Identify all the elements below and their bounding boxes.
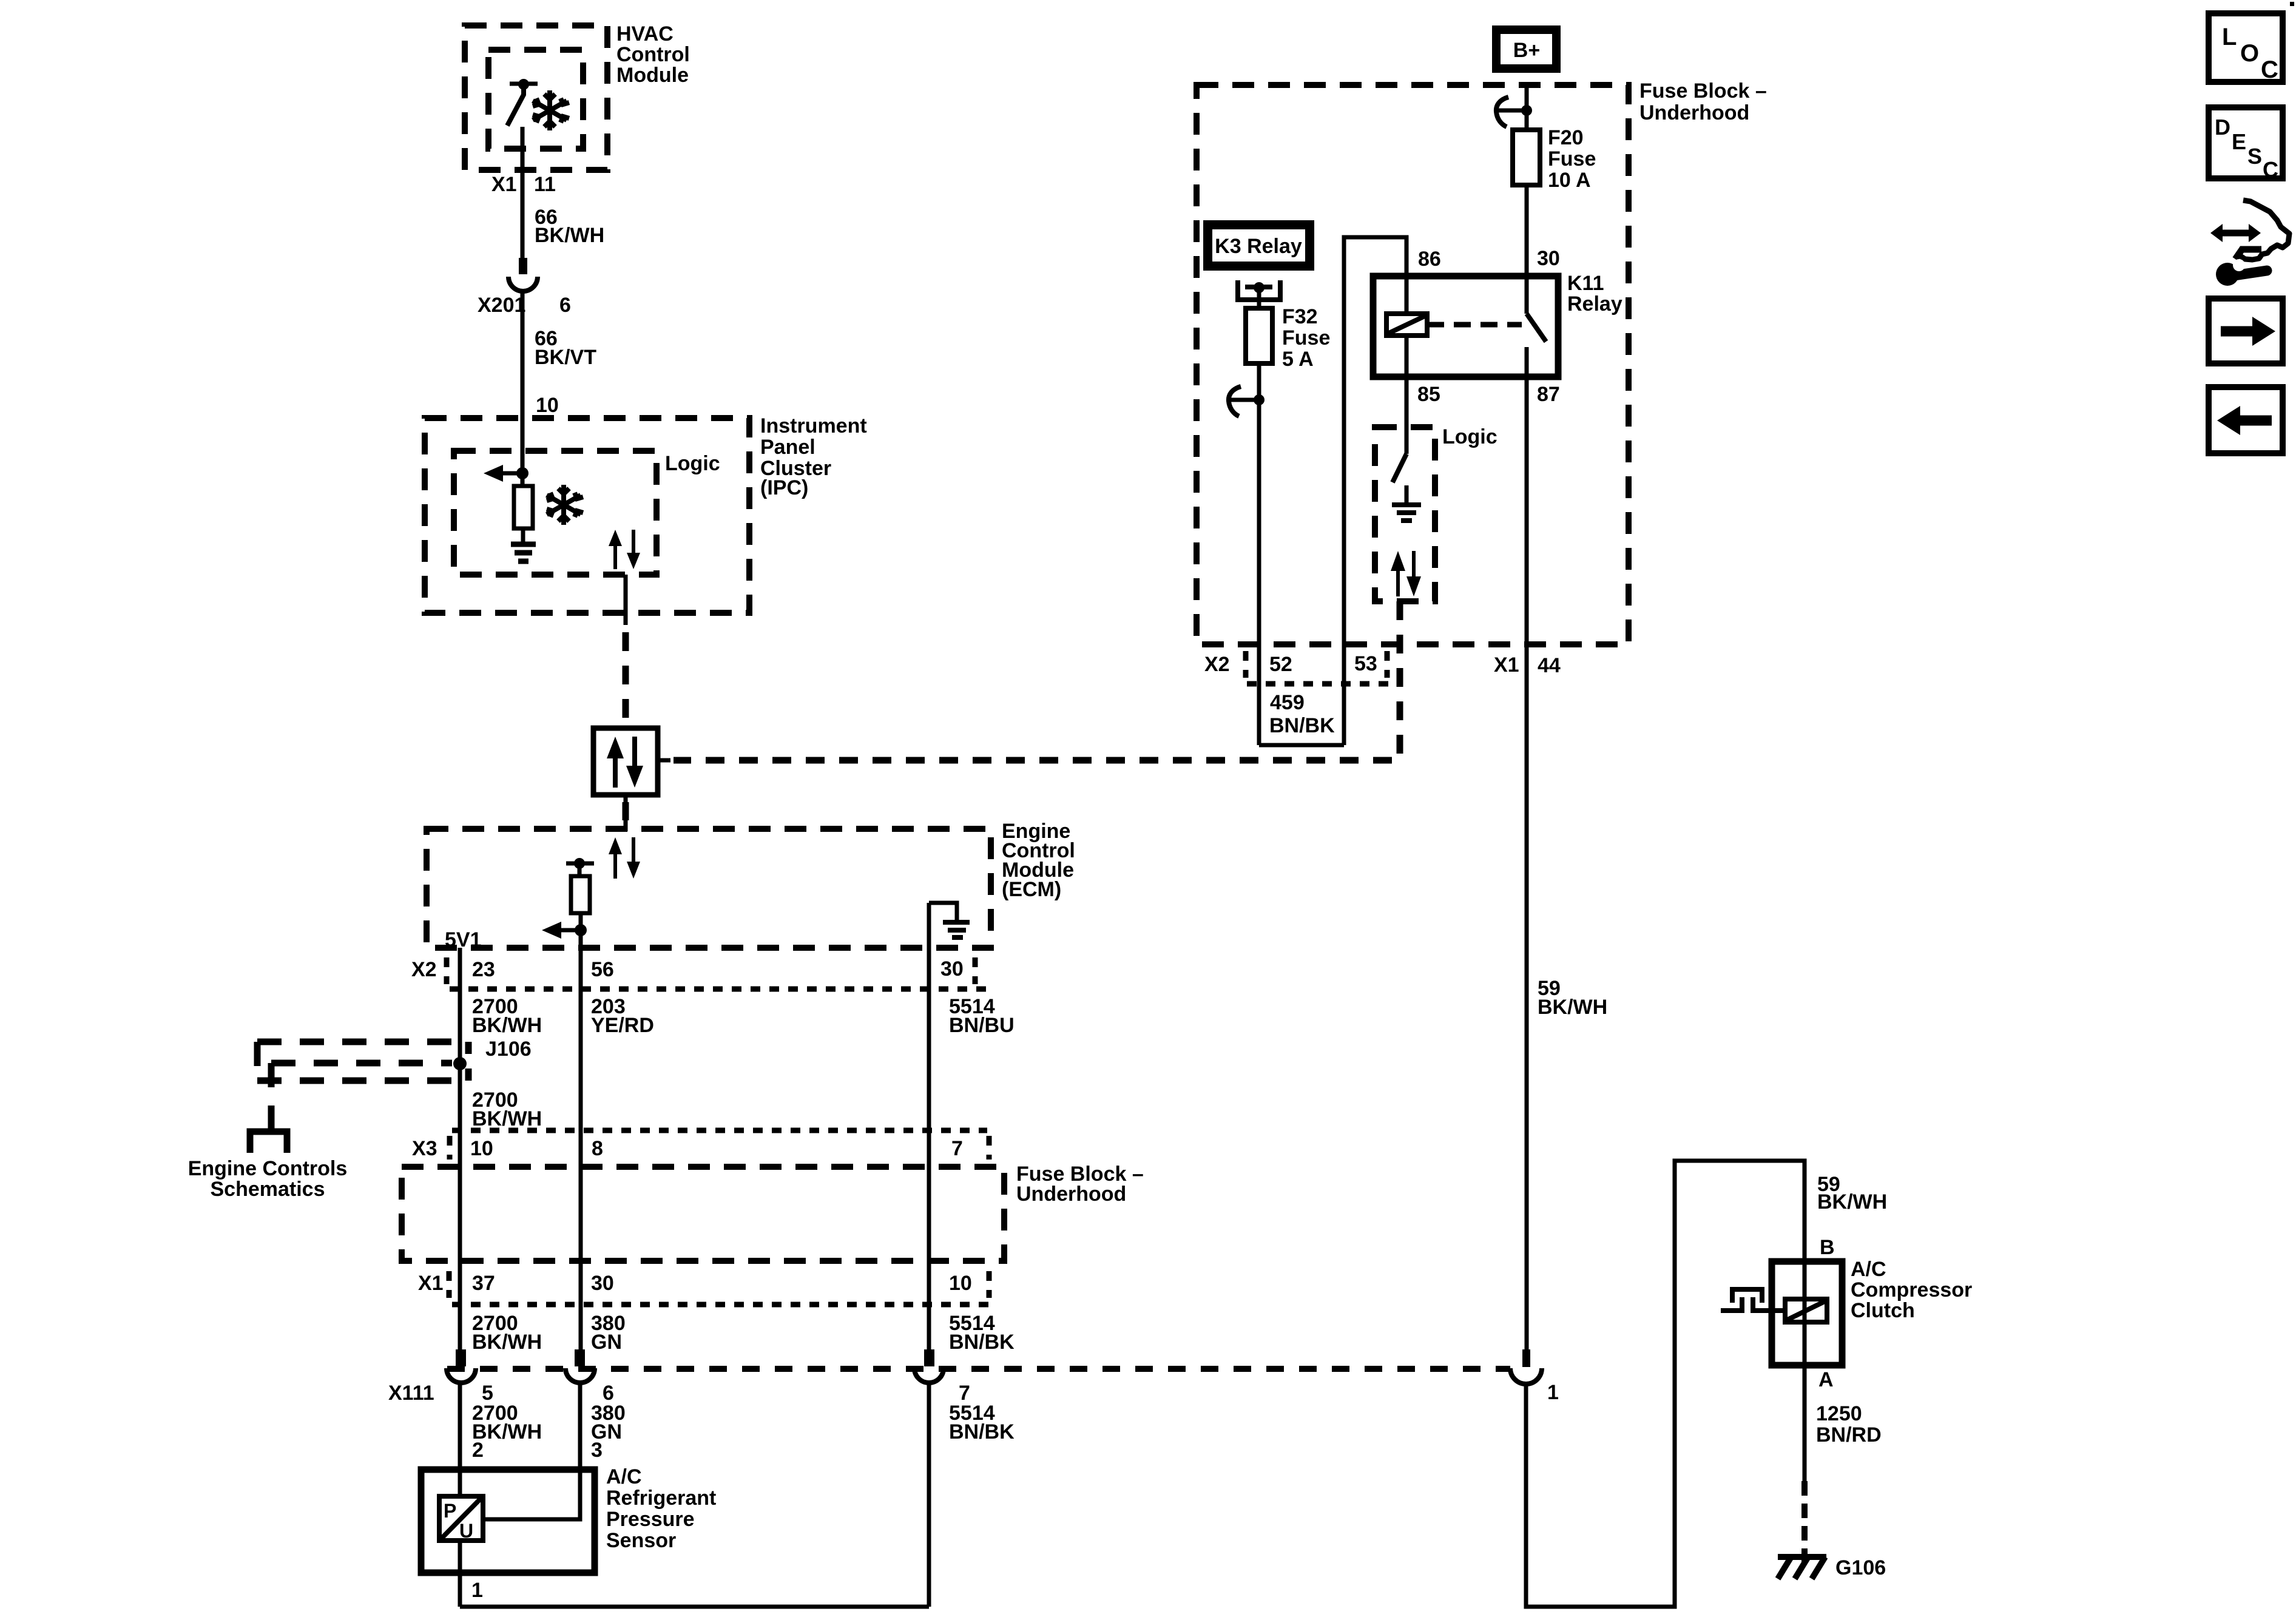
svg-text:(IPC): (IPC): [760, 476, 808, 499]
connector X111 pin (BN/BK): [914, 1349, 944, 1383]
svg-text:Refrigerant: Refrigerant: [606, 1487, 716, 1510]
svg-text:Relay: Relay: [1567, 292, 1622, 316]
svg-text:A: A: [1818, 1368, 1834, 1391]
svg-text:85: 85: [1417, 383, 1440, 406]
snowflake icon (IPC): [547, 485, 583, 525]
svg-text:Underhood: Underhood: [1639, 101, 1749, 124]
A/C Compressor Clutch box: [1772, 1261, 1842, 1365]
svg-text:459: 459: [1270, 691, 1305, 714]
fuse F32 5A: [1246, 308, 1272, 363]
wire relay 85 to logic box: [1405, 336, 1409, 454]
svg-text:Compressor: Compressor: [1851, 1278, 1972, 1301]
svg-text:BN/BK: BN/BK: [1269, 714, 1335, 737]
svg-text:X2: X2: [411, 958, 437, 981]
svg-text:10: 10: [536, 394, 559, 417]
svg-text:E: E: [2232, 129, 2246, 154]
HVAC Control Module inner dashed box: [488, 50, 583, 149]
left arrow (signal out) in IPC: [484, 465, 528, 482]
svg-text:L: L: [2222, 24, 2237, 50]
svg-text:56: 56: [591, 958, 614, 981]
clutch mechanical symbol: [1721, 1289, 1785, 1311]
connector X111 face line: [447, 1366, 1510, 1372]
svg-text:86: 86: [1418, 248, 1441, 271]
chassis ground G106: [1778, 1557, 1826, 1579]
wire sensor pin 1: [458, 1541, 462, 1607]
wire HVAC pin 11 to X201: [521, 127, 525, 258]
fuse holder bracket above F32: [1235, 280, 1283, 300]
svg-text:Schematics: Schematics: [211, 1178, 325, 1201]
switch in logic box: [1393, 454, 1406, 482]
svg-text:52: 52: [1269, 653, 1292, 676]
connector X111 pin (BK/WH): [447, 1349, 476, 1383]
splice J106 dot: [453, 1057, 467, 1070]
wire F32 clip to X2 pin 52: [1257, 400, 1261, 745]
Engine Control Module dashed box: [427, 829, 991, 948]
wire X201 to IPC pin 10: [521, 290, 525, 473]
svg-text:5 A: 5 A: [1282, 348, 1314, 371]
svg-text:Logic: Logic: [665, 452, 720, 475]
connector X111 pin 1: [1510, 1349, 1542, 1384]
U-wire 459 BN/BK: [1259, 743, 1344, 748]
splice J106 dashed frame: [257, 1042, 468, 1081]
A/C Refrigerant Pressure Sensor box: [421, 1470, 595, 1573]
svg-text:S: S: [2247, 144, 2262, 169]
repair info icon (arrow, panel, wrench): [2210, 200, 2289, 286]
relay coil K11: [1386, 314, 1427, 336]
connector X1 dashed ticks: [447, 1271, 452, 1298]
svg-text:10 A: 10 A: [1548, 169, 1591, 192]
svg-text:Fuse Block –: Fuse Block –: [1639, 79, 1767, 103]
fuse F20 10A: [1513, 130, 1540, 185]
svg-text:Underhood: Underhood: [1016, 1183, 1126, 1206]
forward arrow box: [2209, 299, 2283, 363]
svg-text:Panel: Panel: [760, 436, 815, 459]
svg-text:D: D: [2215, 115, 2230, 140]
connector X2 dashed ticks: [444, 957, 450, 984]
relay coil to switch dashed link: [1427, 322, 1522, 328]
svg-text:HVAC: HVAC: [616, 22, 674, 46]
wire B+ to F20: [1525, 84, 1529, 130]
HVAC Control Module outer dashed box: [465, 25, 607, 170]
fuse clip below F32: [1229, 387, 1264, 416]
serial data arrows in ECM: [609, 837, 640, 879]
svg-text:11: 11: [534, 173, 556, 196]
n-wire pin 53 to relay 86: [1344, 237, 1406, 745]
dashed wire to G106: [1801, 1481, 1808, 1565]
K3 Relay reference box: [1203, 220, 1314, 271]
svg-text:BK/WH: BK/WH: [535, 224, 604, 247]
svg-text:BK/VT: BK/VT: [535, 346, 596, 369]
LOC navigation box: [2209, 13, 2283, 83]
ground symbol in ECM: [929, 903, 970, 937]
serial data wire below IPC: [624, 575, 628, 625]
svg-text:44: 44: [1538, 654, 1561, 677]
svg-text:10: 10: [949, 1272, 972, 1295]
dashed stub to engine controls schematics: [268, 1063, 275, 1129]
serial data arrows in logic box: [1391, 551, 1421, 596]
snowflake icon (HVAC): [533, 90, 569, 130]
wire X111-6 to sensor pin 3: [483, 1382, 580, 1519]
svg-text:X111: X111: [388, 1382, 434, 1405]
svg-text:37: 37: [472, 1272, 495, 1295]
signal ground in IPC: [511, 544, 536, 561]
svg-text:30: 30: [591, 1272, 614, 1295]
svg-text:B: B: [1820, 1236, 1835, 1259]
Instrument Panel Cluster dashed box: [425, 418, 749, 613]
svg-text:30: 30: [940, 957, 964, 981]
connector X1 face line: [452, 1302, 989, 1308]
clutch coil: [1785, 1261, 1827, 1365]
svg-text:1250: 1250: [1816, 1402, 1862, 1425]
svg-text:Pressure: Pressure: [606, 1508, 695, 1531]
wire X111-5 to sensor pin 2: [458, 1382, 462, 1496]
svg-text:YE/RD: YE/RD: [591, 1014, 654, 1037]
wire ECM ground to X2 pin 30: [927, 903, 931, 1349]
relay switch blade: [1527, 314, 1546, 377]
svg-text:BK/WH: BK/WH: [472, 1331, 542, 1354]
wire F20 to relay 30: [1525, 185, 1529, 314]
left arrow (signal) in ECM: [542, 922, 587, 939]
svg-text:BN/BK: BN/BK: [949, 1420, 1015, 1443]
svg-text:J106: J106: [485, 1038, 532, 1061]
IPC Logic inner dashed box: [454, 451, 657, 575]
corner mark: [2290, 2, 2294, 6]
svg-text:Logic: Logic: [1442, 425, 1497, 448]
svg-text:K3 Relay: K3 Relay: [1215, 235, 1302, 258]
svg-text:1: 1: [471, 1579, 483, 1602]
serial data wire to ECM: [624, 795, 628, 802]
svg-text:Engine Controls: Engine Controls: [188, 1157, 348, 1180]
serial data dashed wire to fuse block logic: [658, 758, 670, 763]
svg-text:BN/BK: BN/BK: [949, 1331, 1015, 1354]
svg-text:2: 2: [472, 1439, 484, 1462]
serial data arrows in gateway box: [607, 737, 643, 788]
switch (A/C request) in HVAC module: [507, 79, 538, 126]
wire clutch A: [1803, 1365, 1807, 1481]
svg-text:F32: F32: [1282, 305, 1318, 328]
serial data gateway box: [593, 728, 658, 795]
svg-text:3: 3: [591, 1439, 603, 1462]
svg-text:Module: Module: [616, 64, 689, 87]
wire relay 87 to X1 44: [1525, 377, 1529, 1349]
svg-text:BN/RD: BN/RD: [1816, 1423, 1882, 1447]
svg-text:O: O: [2240, 40, 2259, 67]
svg-text:Control: Control: [616, 43, 690, 66]
svg-text:Sensor: Sensor: [606, 1529, 676, 1552]
svg-text:8: 8: [592, 1137, 603, 1160]
svg-text:Instrument: Instrument: [760, 414, 867, 437]
K11 relay box: [1373, 276, 1558, 377]
svg-text:BK/WH: BK/WH: [472, 1107, 542, 1130]
svg-text:7: 7: [951, 1137, 963, 1160]
svg-text:23: 23: [472, 958, 495, 981]
wire ECM 5V1 to X2 pin 23: [458, 948, 462, 1349]
svg-text:X3: X3: [412, 1137, 437, 1160]
back arrow box: [2209, 387, 2283, 453]
svg-text:10: 10: [470, 1137, 493, 1160]
svg-text:P: P: [444, 1500, 456, 1522]
wire bracket to F32: [1257, 286, 1261, 308]
DESC navigation box: [2209, 107, 2283, 182]
svg-text:(ECM): (ECM): [1002, 878, 1061, 901]
svg-text:C: C: [2261, 56, 2278, 83]
svg-text:X2: X2: [1204, 653, 1230, 676]
pressure sensor P/U transducer symbol: [439, 1496, 483, 1542]
svg-text:X1: X1: [1494, 653, 1519, 677]
Fuse Block Underhood (upper right) dashed box: [1197, 85, 1629, 644]
svg-text:B+: B+: [1513, 39, 1540, 62]
ground in logic box: [1392, 485, 1421, 521]
svg-text:53: 53: [1354, 652, 1377, 675]
svg-text:U: U: [459, 1520, 473, 1542]
resistor in IPC: [514, 473, 533, 543]
svg-text:A/C: A/C: [1851, 1258, 1886, 1281]
Logic dashed box (fuse block): [1375, 427, 1435, 601]
connector X111 pin (GN): [566, 1349, 595, 1383]
off-page bracket: [250, 1132, 287, 1153]
svg-text:BK/WH: BK/WH: [472, 1014, 542, 1037]
svg-text:5V1: 5V1: [445, 928, 482, 951]
connector X3 dashed ticks: [447, 1136, 453, 1160]
bottom wire sensor pin1 to 5514: [460, 1605, 929, 1609]
svg-text:K11: K11: [1567, 272, 1604, 295]
connector X201 (male pin and female cup): [508, 258, 538, 291]
serial data dashed wire from logic box: [674, 601, 1400, 760]
connector X2 (right) face line: [1247, 681, 1389, 687]
svg-text:6: 6: [559, 294, 571, 317]
svg-text:BN/BU: BN/BU: [949, 1014, 1015, 1037]
svg-text:1: 1: [1547, 1381, 1559, 1404]
svg-text:Fuse: Fuse: [1548, 147, 1596, 170]
svg-text:F20: F20: [1548, 126, 1584, 149]
svg-text:X201: X201: [478, 294, 525, 317]
serial data arrows in IPC logic: [609, 530, 640, 569]
B+ power symbol box: [1492, 25, 1561, 73]
fuse clip at F20: [1496, 97, 1532, 127]
wire X111-1 to compressor clutch: [1526, 1161, 1805, 1607]
pull-up resistor in ECM: [566, 858, 594, 930]
wire X111-7 to bottom run: [927, 1382, 931, 1607]
connector X2 (right) dashed ticks: [1243, 651, 1249, 678]
svg-text:Clutch: Clutch: [1851, 1299, 1915, 1322]
svg-text:Fuse: Fuse: [1282, 326, 1330, 349]
Fuse Block Underhood (lower) dashed box: [402, 1167, 1004, 1261]
svg-text:BK/WH: BK/WH: [1538, 996, 1607, 1019]
svg-text:30: 30: [1537, 247, 1560, 270]
svg-text:X1: X1: [418, 1272, 444, 1295]
svg-text:BK/WH: BK/WH: [1817, 1190, 1887, 1214]
connector X3 face line: [452, 1128, 987, 1133]
svg-text:X1: X1: [491, 173, 517, 196]
wire F32 to clip: [1257, 363, 1261, 400]
connector X2 face line: [450, 987, 987, 992]
svg-text:A/C: A/C: [606, 1465, 642, 1488]
svg-text:87: 87: [1537, 383, 1560, 406]
svg-text:G106: G106: [1835, 1556, 1886, 1579]
wire ECM resistor to X2 pin 56: [579, 930, 583, 1349]
svg-text:C: C: [2263, 157, 2278, 182]
svg-text:GN: GN: [591, 1331, 622, 1354]
